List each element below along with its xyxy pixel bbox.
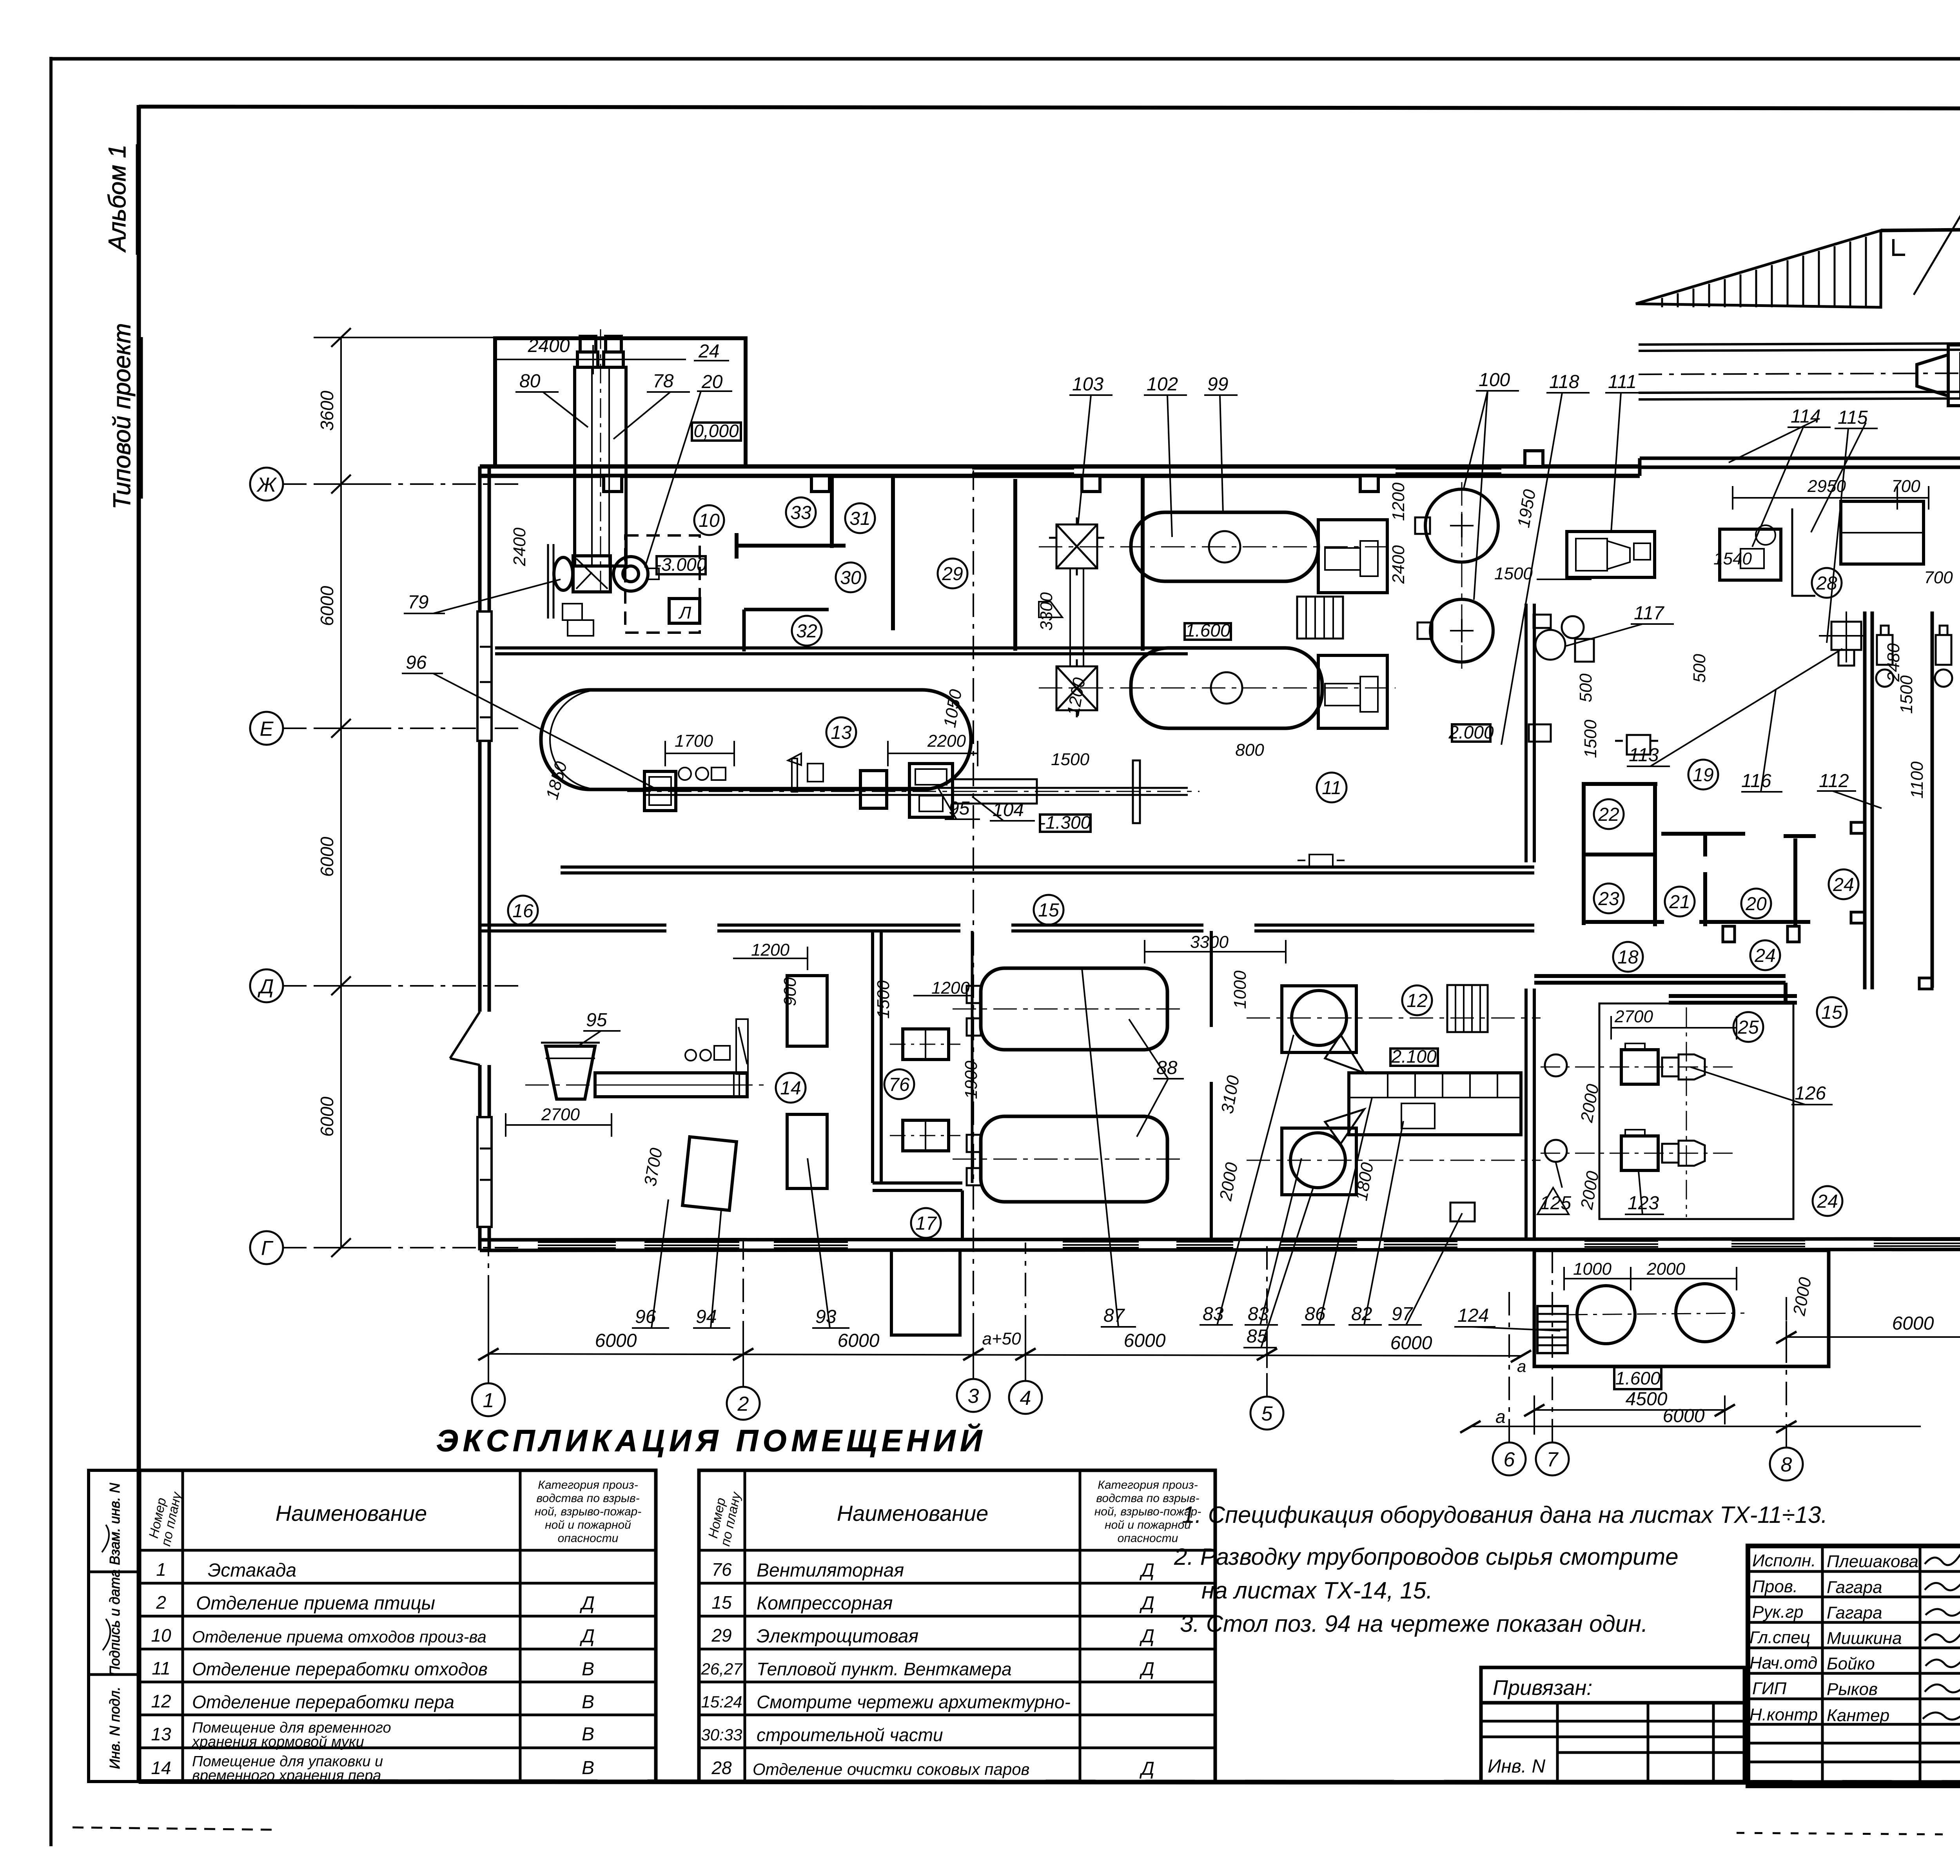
svg-text:Альбом 1: Альбом 1 xyxy=(104,145,131,253)
svg-text:хранения кормовой муки: хранения кормовой муки xyxy=(191,1734,364,1750)
svg-text:Отделение приема птицы: Отделение приема птицы xyxy=(196,1593,435,1614)
svg-text:а+50: а+50 xyxy=(982,1329,1021,1348)
svg-text:Смотрите чертежи архитектурно-: Смотрите чертежи архитектурно- xyxy=(757,1692,1071,1712)
svg-text:30: 30 xyxy=(840,568,861,588)
svg-text:водства по взрыв-: водства по взрыв- xyxy=(536,1492,639,1505)
svg-text:78: 78 xyxy=(653,371,674,392)
svg-text:Д: Д xyxy=(579,1593,595,1614)
svg-text:96: 96 xyxy=(406,652,427,673)
svg-text:ЭКСПЛИКАЦИЯ ПОМЕЩЕНИЙ: ЭКСПЛИКАЦИЯ ПОМЕЩЕНИЙ xyxy=(436,1423,987,1458)
svg-text:14: 14 xyxy=(780,1078,801,1099)
svg-text:2: 2 xyxy=(737,1393,749,1415)
svg-text:ной и пожарной: ной и пожарной xyxy=(1105,1519,1191,1531)
svg-text:Рыков: Рыков xyxy=(1827,1680,1878,1699)
svg-text:103: 103 xyxy=(1072,374,1103,395)
svg-text:10: 10 xyxy=(151,1625,171,1646)
svg-text:Наименование: Наименование xyxy=(276,1501,427,1526)
svg-text:Д: Д xyxy=(579,1626,595,1647)
svg-text:1950: 1950 xyxy=(1514,488,1539,529)
svg-text:24: 24 xyxy=(1754,945,1775,966)
svg-text:6000: 6000 xyxy=(1892,1313,1934,1334)
svg-text:В: В xyxy=(582,1758,594,1778)
svg-text:1700: 1700 xyxy=(675,731,713,751)
svg-text:Категория произ-: Категория произ- xyxy=(1098,1479,1198,1491)
svg-text:15: 15 xyxy=(711,1592,732,1613)
svg-text:Эстакада: Эстакада xyxy=(208,1560,296,1581)
svg-text:2000: 2000 xyxy=(1789,1276,1815,1317)
svg-text:23: 23 xyxy=(1598,889,1619,909)
svg-text:22: 22 xyxy=(1598,804,1619,825)
svg-text:93: 93 xyxy=(815,1306,837,1327)
svg-text:100: 100 xyxy=(1479,370,1510,390)
svg-text:1.600: 1.600 xyxy=(1615,1368,1661,1388)
svg-text:6: 6 xyxy=(1504,1448,1515,1471)
svg-text:3700: 3700 xyxy=(641,1147,666,1188)
svg-text:6000: 6000 xyxy=(317,1096,337,1137)
svg-text:6000: 6000 xyxy=(1390,1333,1432,1353)
svg-text:Н.контр: Н.контр xyxy=(1749,1705,1818,1724)
svg-text:126: 126 xyxy=(1795,1083,1826,1104)
svg-text:2.000: 2.000 xyxy=(1448,722,1494,742)
svg-text:В: В xyxy=(582,1659,594,1680)
svg-text:1000: 1000 xyxy=(1573,1259,1612,1279)
svg-text:Гагара: Гагара xyxy=(1827,1603,1882,1622)
svg-text:1900: 1900 xyxy=(962,1061,981,1099)
svg-text:24: 24 xyxy=(698,341,719,362)
svg-text:16: 16 xyxy=(512,901,534,922)
svg-text:Категория произ-: Категория произ- xyxy=(538,1479,638,1491)
svg-text:2400: 2400 xyxy=(510,528,529,566)
svg-text:6000: 6000 xyxy=(1124,1330,1166,1351)
svg-text:1. Спецификация оборудования: 1. Спецификация оборудования дана на лис… xyxy=(1182,1502,1828,1528)
svg-text:111: 111 xyxy=(1608,372,1637,392)
svg-text:Плешакова: Плешакова xyxy=(1827,1552,1918,1571)
svg-text:11: 11 xyxy=(1322,778,1341,798)
svg-text:Наименование: Наименование xyxy=(837,1501,988,1526)
svg-text:86: 86 xyxy=(1305,1304,1326,1324)
svg-text:Ж: Ж xyxy=(256,474,277,496)
svg-text:3600: 3600 xyxy=(317,390,337,431)
svg-text:Гагара: Гагара xyxy=(1827,1578,1882,1597)
svg-text:113: 113 xyxy=(1629,745,1659,766)
svg-text:а: а xyxy=(1495,1406,1506,1427)
svg-text:ГИП: ГИП xyxy=(1752,1679,1786,1698)
svg-text:Д: Д xyxy=(1139,1659,1154,1680)
svg-text:20: 20 xyxy=(1745,894,1767,914)
svg-text:Нач.отд: Нач.отд xyxy=(1749,1653,1817,1673)
svg-text:2. Разводку трубопроводов сы: 2. Разводку трубопроводов сырья смотрите xyxy=(1174,1544,1679,1570)
svg-text:Компрессорная: Компрессорная xyxy=(757,1593,893,1614)
svg-text:Пров.: Пров. xyxy=(1752,1577,1798,1596)
svg-text:6000: 6000 xyxy=(595,1330,637,1351)
svg-text:500: 500 xyxy=(1576,673,1595,702)
svg-text:Вентиляторная: Вентиляторная xyxy=(757,1560,904,1581)
svg-text:15: 15 xyxy=(1821,1002,1842,1023)
svg-text:14: 14 xyxy=(151,1758,171,1778)
svg-text:87: 87 xyxy=(1103,1305,1125,1326)
svg-text:76: 76 xyxy=(889,1074,910,1095)
svg-text:Тепловой пункт. Венткамера: Тепловой пункт. Венткамера xyxy=(757,1659,1012,1679)
svg-text:4500: 4500 xyxy=(1626,1389,1668,1410)
svg-text:Бойко: Бойко xyxy=(1827,1654,1875,1673)
svg-text:Привязан:: Привязан: xyxy=(1493,1676,1592,1700)
svg-text:12: 12 xyxy=(1406,991,1427,1011)
svg-text:10: 10 xyxy=(699,510,720,531)
svg-text:Д: Д xyxy=(258,975,274,998)
svg-text:Е: Е xyxy=(260,718,274,740)
svg-text:Исполн.: Исполн. xyxy=(1752,1551,1816,1570)
svg-text:временного хранения пера: временного хранения пера xyxy=(192,1767,381,1784)
svg-text:Л: Л xyxy=(678,603,691,622)
svg-text:17: 17 xyxy=(915,1213,937,1234)
svg-text:Инв. N: Инв. N xyxy=(1488,1756,1545,1777)
svg-text:В: В xyxy=(582,1692,594,1713)
svg-text:6000: 6000 xyxy=(317,586,337,626)
svg-text:0,000: 0,000 xyxy=(693,421,739,441)
svg-text:3: 3 xyxy=(968,1385,979,1408)
svg-text:29: 29 xyxy=(711,1625,731,1646)
svg-text:Д: Д xyxy=(1139,1758,1154,1779)
svg-text:116: 116 xyxy=(1741,771,1771,791)
svg-text:Взам. инв. N: Взам. инв. N xyxy=(107,1482,123,1565)
svg-text:8: 8 xyxy=(1781,1453,1792,1476)
svg-text:1500: 1500 xyxy=(1581,720,1600,758)
svg-text:Типовой проект: Типовой проект xyxy=(109,323,136,509)
svg-text:ной и пожарной: ной и пожарной xyxy=(545,1519,631,1531)
svg-text:Мишкина: Мишкина xyxy=(1827,1629,1902,1648)
svg-text:13: 13 xyxy=(831,722,852,743)
svg-text:2480: 2480 xyxy=(1884,643,1903,682)
svg-text:Д: Д xyxy=(1139,1560,1154,1581)
svg-text:33: 33 xyxy=(790,503,811,523)
svg-text:12: 12 xyxy=(151,1691,171,1711)
svg-text:24: 24 xyxy=(1817,1191,1838,1212)
svg-text:2.100: 2.100 xyxy=(1391,1046,1437,1067)
svg-text:а: а xyxy=(1517,1357,1526,1375)
svg-text:ной, взрыво-пожар-: ной, взрыво-пожар- xyxy=(535,1505,641,1518)
svg-text:800: 800 xyxy=(1235,740,1264,760)
svg-text:Электрощитовая: Электрощитовая xyxy=(757,1626,918,1647)
svg-text:94: 94 xyxy=(696,1306,717,1327)
svg-text:88: 88 xyxy=(1156,1058,1178,1078)
svg-text:2700: 2700 xyxy=(541,1105,580,1124)
svg-text:13: 13 xyxy=(151,1724,171,1744)
svg-text:опасности: опасности xyxy=(558,1532,619,1545)
svg-text:124: 124 xyxy=(1457,1305,1489,1326)
svg-text:20: 20 xyxy=(701,372,723,392)
svg-text:1000: 1000 xyxy=(1230,971,1250,1009)
svg-text:1200: 1200 xyxy=(931,978,970,998)
svg-text:118: 118 xyxy=(1549,372,1579,392)
svg-text:2400: 2400 xyxy=(1389,545,1408,584)
svg-text:21: 21 xyxy=(1669,892,1690,913)
svg-text:2: 2 xyxy=(156,1592,166,1613)
svg-text:26,27: 26,27 xyxy=(701,1660,743,1678)
svg-text:Г: Г xyxy=(261,1237,274,1260)
svg-text:4: 4 xyxy=(1020,1387,1031,1410)
svg-text:1500: 1500 xyxy=(874,980,893,1019)
svg-text:Д: Д xyxy=(1139,1626,1154,1647)
svg-text:95: 95 xyxy=(586,1010,607,1031)
svg-text:15: 15 xyxy=(1038,900,1059,921)
svg-text:79: 79 xyxy=(408,592,428,613)
svg-text:5: 5 xyxy=(1261,1402,1273,1425)
svg-text:Д: Д xyxy=(1139,1593,1154,1614)
svg-text:6000: 6000 xyxy=(317,836,337,877)
svg-text:2000: 2000 xyxy=(1216,1161,1242,1203)
svg-text:6000: 6000 xyxy=(1663,1406,1705,1426)
svg-text:83: 83 xyxy=(1248,1304,1269,1324)
svg-text:1: 1 xyxy=(156,1559,166,1580)
svg-text:6000: 6000 xyxy=(838,1330,880,1351)
svg-text:3. Стол поз. 94 на чертеже: 3. Стол поз. 94 на чертеже показан один. xyxy=(1180,1611,1648,1637)
svg-text:Кантер: Кантер xyxy=(1827,1706,1889,1725)
svg-text:900: 900 xyxy=(780,977,800,1006)
svg-text:1200: 1200 xyxy=(751,940,789,960)
svg-text:-3.000: -3.000 xyxy=(655,554,707,575)
svg-text:1: 1 xyxy=(483,1389,494,1412)
svg-text:123: 123 xyxy=(1628,1193,1659,1214)
svg-text:Рук.гр: Рук.гр xyxy=(1752,1602,1804,1622)
svg-text:117: 117 xyxy=(1634,603,1665,624)
svg-text:1500: 1500 xyxy=(1494,564,1533,583)
svg-text:3300: 3300 xyxy=(1190,933,1229,952)
svg-text:1.600: 1.600 xyxy=(1185,620,1230,640)
svg-text:строительной части: строительной части xyxy=(757,1725,943,1745)
svg-text:Инв. N подл.: Инв. N подл. xyxy=(107,1687,123,1769)
svg-text:Гл.спец: Гл.спец xyxy=(1749,1628,1810,1647)
svg-text:104: 104 xyxy=(993,800,1024,820)
svg-text:31: 31 xyxy=(849,508,870,529)
svg-text:80: 80 xyxy=(519,371,541,392)
svg-text:Отделение переработки пера: Отделение переработки пера xyxy=(192,1692,454,1712)
svg-text:700: 700 xyxy=(1891,477,1920,496)
svg-text:Отделение приема отходов произ: Отделение приема отходов произ-ва xyxy=(192,1627,486,1646)
svg-text:114: 114 xyxy=(1791,406,1821,427)
svg-text:82: 82 xyxy=(1351,1304,1372,1324)
svg-text:29: 29 xyxy=(942,564,963,584)
svg-text:76: 76 xyxy=(711,1559,732,1580)
svg-text:2200: 2200 xyxy=(927,731,966,751)
svg-text:1200: 1200 xyxy=(1389,483,1408,521)
svg-text:3100: 3100 xyxy=(1218,1074,1243,1115)
svg-text:В: В xyxy=(582,1724,594,1745)
svg-text:3300: 3300 xyxy=(1037,592,1056,631)
svg-text:95: 95 xyxy=(949,798,970,819)
svg-text:25: 25 xyxy=(1737,1017,1759,1038)
svg-text:2000: 2000 xyxy=(1646,1259,1685,1279)
svg-text:1540: 1540 xyxy=(1713,549,1752,568)
svg-text:115: 115 xyxy=(1838,407,1868,428)
svg-text:на листах ТХ-14, 15.: на листах ТХ-14, 15. xyxy=(1201,1577,1433,1604)
svg-text:112: 112 xyxy=(1819,771,1849,791)
svg-text:99: 99 xyxy=(1207,374,1228,395)
svg-text:700: 700 xyxy=(1924,568,1953,587)
svg-text:Отделение очистки соковых паро: Отделение очистки соковых паров xyxy=(753,1760,1029,1778)
svg-text:500: 500 xyxy=(1690,654,1709,683)
svg-text:30:33: 30:33 xyxy=(701,1725,742,1744)
svg-text:102: 102 xyxy=(1147,374,1178,395)
svg-text:1500: 1500 xyxy=(1051,750,1089,769)
svg-text:опасности: опасности xyxy=(1118,1532,1178,1545)
svg-text:19: 19 xyxy=(1693,765,1713,786)
svg-text:2950: 2950 xyxy=(1807,477,1846,496)
svg-text:32: 32 xyxy=(796,621,817,642)
svg-text:18: 18 xyxy=(1617,947,1639,968)
svg-text:Отделение переработки отходов: Отделение переработки отходов xyxy=(192,1659,488,1679)
svg-text:97: 97 xyxy=(1392,1304,1414,1324)
svg-text:1100: 1100 xyxy=(1907,761,1927,798)
svg-text:2700: 2700 xyxy=(1614,1007,1653,1026)
svg-text:24: 24 xyxy=(1833,874,1854,895)
svg-text:28: 28 xyxy=(711,1758,732,1778)
svg-text:15:24: 15:24 xyxy=(701,1693,742,1711)
svg-text:11: 11 xyxy=(152,1658,171,1678)
svg-text:-1.300: -1.300 xyxy=(1040,812,1091,833)
svg-text:7: 7 xyxy=(1547,1448,1559,1471)
